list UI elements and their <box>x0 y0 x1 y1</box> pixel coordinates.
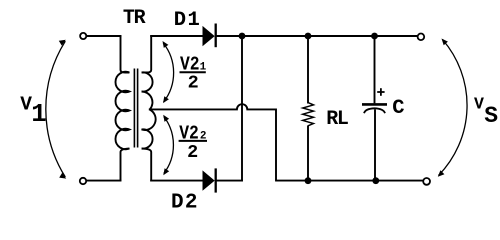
svg-text:1: 1 <box>31 100 46 129</box>
fraction bar lower <box>179 140 207 142</box>
wire secondary bottom to D2 <box>150 180 203 182</box>
capacitor plus sign <box>377 88 384 96</box>
svg-text:2: 2 <box>187 142 198 163</box>
V1 bracket arc <box>46 40 66 179</box>
svg-text:D1: D1 <box>174 9 200 32</box>
junction dot top RL <box>305 33 312 40</box>
capacitor C curved bottom plate <box>364 108 385 113</box>
wire bottom-left rail <box>86 180 121 182</box>
transformer core <box>134 69 137 148</box>
wire top-left rail <box>86 35 121 37</box>
junction dot bottom C <box>372 177 379 184</box>
svg-text:TR: TR <box>123 7 146 30</box>
terminal output bottom <box>423 178 430 185</box>
svg-text:2: 2 <box>188 72 199 93</box>
wire D2 cathode to riser <box>216 180 243 182</box>
svg-text:RL: RL <box>326 108 349 131</box>
diode D1 <box>203 24 216 48</box>
svg-text:V: V <box>474 95 484 114</box>
junction dot top D2 riser <box>239 33 246 40</box>
transformer TR primary winding <box>115 35 129 181</box>
terminal output top <box>418 34 425 41</box>
wire secondary top to D1 <box>150 35 203 37</box>
junction dot top C <box>371 33 378 40</box>
wire RL branch top <box>307 36 309 104</box>
svg-text:C: C <box>392 97 404 120</box>
terminal input bottom <box>80 178 86 184</box>
VS bracket arc <box>438 39 467 177</box>
diode D2 <box>203 168 216 192</box>
wire top rail D1 to output <box>216 35 417 37</box>
wire RL branch bottom <box>307 126 309 182</box>
fraction bar upper <box>180 71 206 73</box>
svg-text:S: S <box>484 103 498 129</box>
wire center tap with hop and drop <box>149 104 276 180</box>
wire C branch bottom <box>374 110 376 182</box>
capacitor C top plate <box>362 103 387 106</box>
junction dot bottom RL <box>305 177 312 184</box>
terminal input top <box>80 33 86 39</box>
wire riser D2 to top rail <box>241 36 243 182</box>
transformer TR secondary winding <box>142 35 156 181</box>
resistor RL zigzag <box>303 103 314 126</box>
V2 lower bracket arc <box>163 115 173 175</box>
wire C branch top <box>374 36 376 103</box>
svg-text:D2: D2 <box>171 192 198 215</box>
V2 upper bracket arc <box>163 41 174 103</box>
wire bottom rail right <box>275 180 423 182</box>
